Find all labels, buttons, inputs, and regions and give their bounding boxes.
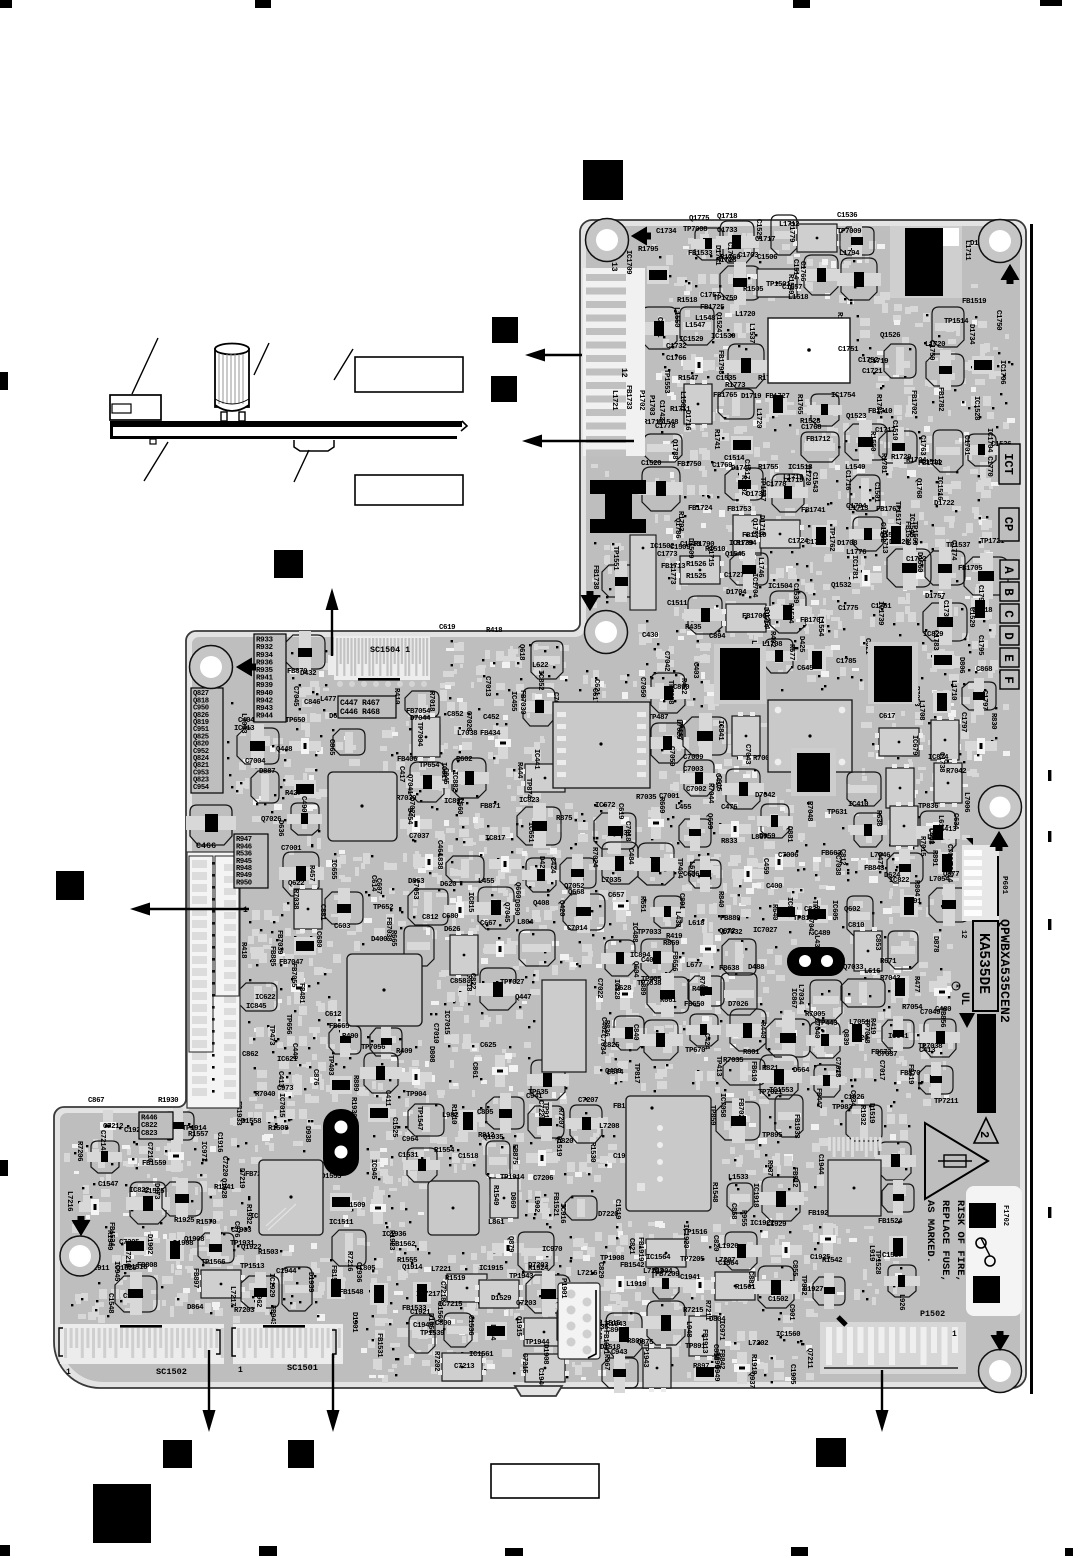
svg-text:FB1753: FB1753 [727,506,752,514]
IC block QFP (middle-left) [328,772,397,841]
svg-text:IC1528: IC1528 [972,396,980,421]
page mark top-right [1040,0,1062,6]
svg-text:C7042: C7042 [662,651,670,671]
svg-text:TP1514: TP1514 [944,318,969,326]
IC TP1944 [521,1339,569,1382]
svg-text:C964: C964 [402,1136,419,1144]
component IC464 [732,866,764,882]
svg-text:TP635: TP635 [528,1089,549,1097]
svg-text:FB885: FB885 [268,946,276,967]
capacitor L961 [643,1301,689,1345]
mounting hole bottom-right [979,1350,1022,1393]
svg-text:Q1545: Q1545 [725,551,746,559]
capacitor R7024 [590,842,642,884]
svg-text:C881: C881 [318,904,326,921]
resistor C973 [277,1085,310,1122]
component outline R1528 [800,418,839,462]
capacitor R1765 [795,394,842,426]
diode L805 [359,1265,388,1305]
svg-text:C476: C476 [721,804,738,812]
svg-text:L804: L804 [488,1324,496,1341]
capacitor R427 [285,790,322,835]
IC L7207 [711,1257,759,1300]
svg-text:C7003: C7003 [683,766,704,774]
svg-text:C7203: C7203 [516,1300,537,1308]
capacitor C856 [275,631,325,673]
svg-text:C7210: C7210 [145,1142,153,1163]
capacitor D477 [875,849,923,887]
svg-text:C1703: C1703 [738,252,759,260]
resistor R400 [232,899,275,923]
svg-text:C1773: C1773 [657,551,678,559]
index line under SC1504 [358,678,400,681]
svg-text:FB943: FB943 [268,1305,276,1326]
resistor C430 [642,632,667,674]
capacitor FB1799 [629,307,681,349]
svg-text:FB1901: FB1901 [601,1330,609,1355]
tick mark 4 [1048,1207,1051,1218]
svg-text:R677: R677 [787,644,795,660]
svg-text:C1757: C1757 [700,292,720,300]
svg-text:R7035: R7035 [723,1057,744,1065]
svg-text:F1702: F1702 [1001,1205,1009,1226]
page mark left bottom [0,1545,10,1556]
svg-text:D1908: D1908 [173,1240,194,1248]
svg-text:C: C [1001,610,1015,618]
resistor IC892 [444,798,469,840]
svg-text:C413: C413 [276,1071,284,1088]
svg-text:C447 R467: C447 R467 [340,699,380,708]
svg-text:R1765: R1765 [795,394,803,415]
diode C7030 [848,1022,866,1044]
svg-text:C1733: C1733 [717,227,738,235]
svg-text:D624: D624 [884,872,901,880]
IC R1941 [490,1174,518,1222]
svg-text:R955: R955 [739,1210,747,1227]
connector SC1501 [232,1324,343,1364]
svg-text:C417: C417 [397,766,405,782]
board code box B [1000,582,1019,601]
capacitor Q7052 [563,883,605,933]
IC white block (IC1708 area) [768,318,850,383]
svg-text:R440: R440 [758,1022,766,1039]
svg-text:Q879: Q879 [506,1236,514,1252]
capacitor C424 [548,854,596,892]
IC block IC1901 [428,1181,479,1235]
svg-text:FB1933: FB1933 [792,1114,800,1139]
component outline R1548 [710,1182,753,1213]
resistor IC845 [246,1003,279,1040]
component outline C1926 [844,1094,882,1141]
svg-text:12: 12 [619,368,628,378]
svg-text:R7044: R7044 [706,783,714,804]
svg-text:C838: C838 [804,906,821,914]
svg-text:L7202: L7202 [748,1340,768,1348]
svg-text:C1518: C1518 [458,1153,479,1161]
component outline C7004 [245,758,279,803]
diode R1795 [638,246,669,284]
svg-text:C1548: C1548 [106,1293,114,1314]
svg-text:D1710: D1710 [757,515,765,536]
svg-text:C1766: C1766 [666,355,687,363]
svg-text:IC1918: IC1918 [751,1183,759,1208]
svg-text:IC815: IC815 [466,892,474,913]
svg-text:IC817: IC817 [485,835,505,843]
capacitor IC823 [517,797,561,848]
svg-text:C812: C812 [422,914,438,922]
svg-text:CP: CP [1001,517,1015,531]
component outline Q672 [719,928,756,975]
svg-text:RISK OF FIRE,: RISK OF FIRE, [954,1200,966,1282]
IC block IC803 [626,1096,711,1211]
IC C810 [848,922,882,975]
svg-text:C452: C452 [483,714,499,722]
svg-text:C1742: C1742 [657,400,665,420]
svg-text:L7038: L7038 [457,730,478,738]
svg-text:R1910: R1910 [449,1104,457,1125]
capacitor R1551 [486,1093,524,1133]
component IC817 [485,835,521,872]
resistor R7048 [575,819,588,845]
capacitor FB7210 [875,1142,916,1180]
svg-text:C612: C612 [325,1011,341,1019]
capacitor R7005 [805,1011,844,1058]
svg-text:L7035: L7035 [601,877,622,885]
callout arrow LA2 [542,440,634,442]
svg-text:R1925: R1925 [174,1217,195,1225]
svg-text:R671: R671 [880,958,897,966]
svg-text:C680: C680 [442,913,459,921]
svg-text:C1936: C1936 [354,1262,362,1283]
component outline D662 [329,713,365,755]
svg-text:L1720: L1720 [754,408,762,429]
svg-text:R1941: R1941 [214,1184,235,1192]
svg-text:FB1706: FB1706 [742,613,767,621]
resistor R435 [685,624,710,666]
capacitor IC1732 [964,434,999,466]
diode L662 [927,834,956,874]
capacitor R440 [758,1015,810,1061]
svg-text:C7014: C7014 [567,925,588,933]
svg-text:FB889: FB889 [720,915,740,923]
svg-text:FB665: FB665 [329,1023,350,1031]
svg-text:FB447: FB447 [814,1088,822,1108]
svg-text:C400: C400 [766,883,783,891]
svg-text:IC1704: IC1704 [750,573,758,598]
svg-text:IC1781: IC1781 [850,555,858,580]
svg-text:FB1733: FB1733 [624,385,632,410]
svg-text:IC7217: IC7217 [416,1291,440,1299]
resistor D7220 [598,1211,631,1248]
callout arrow LA4 (up) [331,610,333,656]
svg-text:Q602: Q602 [844,906,860,914]
svg-text:ICT: ICT [1001,453,1015,475]
svg-text:Q622: Q622 [288,880,304,888]
svg-text:C1511: C1511 [667,600,688,608]
IC FB7054 [406,708,440,761]
svg-text:R444: R444 [515,762,523,779]
capacitor Q1526 [115,1265,157,1315]
resistor R1530 [588,1142,631,1166]
diode D1931 [564,1282,586,1300]
svg-text:R1519: R1519 [445,1275,465,1283]
svg-text:D869: D869 [508,1192,516,1208]
svg-text:2: 2 [977,1131,991,1138]
svg-text:SC1502: SC1502 [156,1367,187,1377]
section marker square 4 [274,550,303,578]
svg-text:C1944: C1944 [276,1268,297,1276]
svg-text:IC1511: IC1511 [329,1219,354,1227]
svg-text:C424: C424 [548,857,556,874]
resistor FB601 [975,660,1001,673]
svg-text:R1561: R1561 [735,1284,756,1292]
svg-text:1: 1 [238,1366,243,1375]
svg-text:C1921: C1921 [410,1309,431,1317]
component TP1908 [600,1255,636,1292]
svg-text:R1930: R1930 [158,1097,179,1105]
capacitor L889 [638,973,689,1017]
capacitor C612 [325,1011,361,1057]
component outline IC7215 [438,1301,472,1347]
svg-text:C1722: C1722 [906,556,926,564]
capacitor C822 [468,968,520,1010]
svg-text:FB808: FB808 [137,1262,158,1270]
component outline C1529 [754,215,797,255]
label box W2 [355,475,463,505]
page mark bottom x268 [259,1546,277,1556]
svg-text:Q7032: Q7032 [611,830,631,838]
board code box F [1000,670,1019,689]
svg-text:C7002: C7002 [945,844,953,864]
component outline FB1533 [402,1305,435,1353]
svg-text:IC641: IC641 [888,1033,909,1041]
resistor C7014 [567,925,592,967]
svg-text:D620: D620 [440,881,457,889]
board name box KA535DE [973,921,998,1011]
svg-text:C1520: C1520 [641,460,662,468]
warning triangle (fuse) [925,1123,988,1199]
svg-text:QPWBXA535CEN2: QPWBXA535CEN2 [997,919,1012,1023]
diode FB1741 [801,507,830,547]
svg-text:Q839: Q839 [841,1029,849,1045]
svg-text:C7205: C7205 [119,1239,140,1247]
component L1776 [846,549,882,586]
board code box C [1000,604,1019,623]
index line SC1502 [120,1325,162,1328]
svg-text:R468: R468 [692,986,709,994]
IC D1779 [787,222,841,252]
svg-text:Q1775: Q1775 [689,215,710,223]
svg-text:C1718: C1718 [806,539,827,547]
resistor L1941 [210,1196,223,1222]
svg-text:TP404: TP404 [675,858,683,879]
svg-text:IC1915: IC1915 [479,1265,504,1273]
resistor C852 [447,711,472,753]
svg-text:L902: L902 [532,1196,540,1212]
svg-text:C867: C867 [88,1097,104,1105]
svg-text:FB856: FB856 [938,1007,946,1028]
svg-text:C7010: C7010 [431,1023,439,1044]
svg-text:R897: R897 [693,1363,709,1371]
svg-text:R950: R950 [236,879,252,887]
svg-text:FB7055: FB7055 [289,963,297,988]
svg-text:C1539: C1539 [791,583,799,603]
component C7037 [409,833,445,870]
component outline IC1511 [329,1219,366,1266]
IC D654 [931,716,959,764]
svg-text:TP413: TP413 [714,1056,722,1077]
svg-text:R1932: R1932 [858,1105,866,1125]
page mark bottom x800 [791,1547,808,1556]
svg-text:D1901: D1901 [350,1312,358,1333]
svg-text:R1554: R1554 [434,1147,455,1155]
section marker square 3 [491,376,517,402]
svg-text:Q448: Q448 [276,746,293,754]
svg-text:Q660: Q660 [513,882,521,899]
svg-text:IC1754: IC1754 [831,392,856,400]
svg-text:R7040: R7040 [255,1091,276,1099]
svg-text:C408: C408 [926,828,934,845]
svg-text:C430: C430 [642,632,659,640]
resistor TP817 [632,1063,667,1092]
svg-text:FB1741: FB1741 [801,507,826,515]
svg-text:L7221: L7221 [431,1266,452,1274]
svg-text:C459: C459 [761,858,769,874]
capacitor FB419 [906,1062,953,1098]
component C625 [480,1042,508,1087]
svg-text:D427: D427 [537,856,545,872]
svg-text:C1944: C1944 [816,1154,824,1175]
svg-text:R651: R651 [638,896,646,913]
svg-text:IC1560: IC1560 [776,1331,801,1339]
capacitor IC815 [466,887,519,929]
capacitor IC1504 [766,583,810,633]
svg-text:R967: R967 [602,1354,610,1370]
IC Q1757 [750,518,804,548]
capacitor C1520 [638,460,683,511]
illustration solder clip [294,440,334,451]
svg-text:IC679: IC679 [910,735,918,755]
svg-text:D432: D432 [300,670,316,678]
svg-text:C7004: C7004 [245,758,266,766]
svg-text:IC7027: IC7027 [753,927,777,935]
svg-text:IC605: IC605 [830,900,838,921]
svg-text:C607: C607 [374,878,382,894]
svg-text:C862: C862 [242,1051,258,1059]
svg-text:C619: C619 [616,803,624,819]
svg-text:C490: C490 [299,796,307,813]
svg-text:IC1709: IC1709 [624,250,632,274]
capacitor FB650 [684,1001,721,1046]
svg-text:1: 1 [66,1368,71,1377]
diode R1749 [758,375,787,415]
svg-text:IC410: IC410 [848,801,869,809]
capacitor TP1513 [240,1263,279,1312]
resistor TP895 [762,1132,795,1169]
svg-text:R859: R859 [663,940,679,948]
svg-text:C1702: C1702 [922,270,930,290]
svg-text:TP7004: TP7004 [415,722,423,747]
component C7216 [168,1140,184,1172]
svg-text:FB1531: FB1531 [375,1333,383,1358]
svg-text:L804: L804 [517,919,534,927]
resistor IC1508 [978,475,991,501]
capacitor C417 [713,769,764,809]
IC D879 [886,764,914,812]
svg-text:FB871: FB871 [480,803,501,811]
diode R1549 [105,1230,146,1255]
IC C617 [875,713,923,756]
IC block IC1502 [630,535,656,610]
component TP7205 [680,1256,716,1293]
capacitor R651 [638,896,685,928]
svg-text:TP1513: TP1513 [240,1263,265,1271]
power inductor L1711 (black) [890,226,962,298]
svg-text:C615: C615 [714,775,722,792]
svg-text:L1518: L1518 [788,294,809,302]
svg-text:D808: D808 [427,1046,435,1063]
fiducial arrow (left-middle hole) [236,658,256,677]
svg-text:IC823: IC823 [519,797,540,805]
component L868 [965,738,997,754]
svg-text:L7029: L7029 [674,719,682,739]
component L861 [488,1219,524,1256]
svg-text:R1525: R1525 [686,573,707,581]
callout line 3 [334,349,353,380]
section marker square 8 [816,1438,846,1467]
svg-text:C1536: C1536 [837,212,858,220]
IC D626 [444,926,478,979]
capacitor TP7056 [360,1044,402,1093]
svg-text:R809: R809 [627,1338,643,1346]
svg-text:R7038: R7038 [291,889,299,910]
svg-text:IC1713: IC1713 [880,529,888,554]
svg-text:R1702: R1702 [739,475,747,495]
svg-text:IC852: IC852 [536,670,544,690]
svg-text:D804: D804 [709,1316,726,1324]
svg-text:L7203: L7203 [643,1268,664,1276]
svg-text:C1502: C1502 [768,1296,788,1304]
crystal X802 (black oval) [323,1109,359,1176]
capacitor FB610 [749,1055,802,1099]
svg-text:C7045: C7045 [291,686,299,707]
capacitor TP7033 [637,929,677,977]
svg-text:D1704: D1704 [726,589,747,597]
svg-text:C7034: C7034 [598,1034,606,1055]
IC Q622 [288,880,322,933]
component TP650 [285,717,321,754]
svg-text:R602: R602 [456,756,472,764]
resistor C812 [838,849,881,873]
svg-text:C413: C413 [919,1047,936,1055]
capacitor C417 [397,762,448,802]
capacitor TP1547 [758,474,808,512]
svg-text:Q1786: Q1786 [673,518,681,539]
svg-text:FB1712: FB1712 [806,436,830,444]
svg-text:L677: L677 [686,962,702,970]
svg-text:R1555: R1555 [397,1257,418,1265]
resistor D1901 [350,1312,385,1341]
capacitor C1514 [791,255,842,295]
svg-text:FB1542: FB1542 [620,1262,644,1270]
IC Q1915 [514,1316,568,1346]
rating triangle 2 [974,1118,998,1143]
svg-text:R7035: R7035 [636,794,657,802]
capacitor L1794 [837,250,881,300]
svg-text:D1722: D1722 [934,500,954,508]
svg-text:REPLACE FUSE,: REPLACE FUSE, [939,1200,951,1282]
svg-text:C1519: C1519 [613,1199,621,1219]
